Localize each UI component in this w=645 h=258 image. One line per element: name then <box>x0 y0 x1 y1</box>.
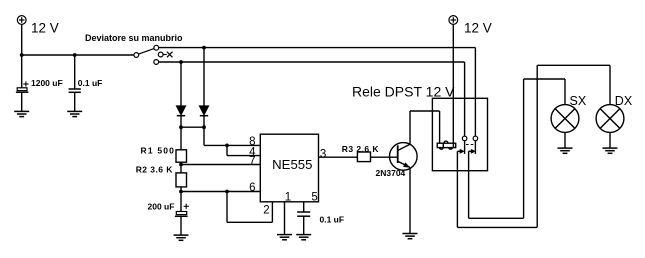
wire pin 3 to R3 <box>319 156 358 158</box>
node pin6/pin2 junction <box>225 190 229 194</box>
node net B / diode D1 junction <box>179 60 183 64</box>
wire D2 to pin 8 <box>204 127 260 145</box>
wire armature left to lamp DX <box>457 65 610 227</box>
wire cathode bus <box>181 126 204 128</box>
relay mechanical link (dashed) <box>466 144 474 146</box>
wire cap C2 top lead <box>74 55 76 89</box>
svg-text:1200 uF: 1200 uF <box>31 78 63 88</box>
ground under SX <box>558 148 573 153</box>
svg-text:2: 2 <box>263 205 269 217</box>
ground under Q1 <box>403 234 418 239</box>
wire pin 6 <box>181 191 260 193</box>
svg-text:5: 5 <box>311 191 317 203</box>
capacitor C2 0.1 uF <box>69 89 81 92</box>
svg-text:200 uF: 200 uF <box>148 202 175 212</box>
ground under pin 1 <box>277 235 292 240</box>
wire net A branch to D2 <box>203 48 205 106</box>
lamp SX <box>551 105 579 133</box>
svg-text:Deviatore su manubrio: Deviatore su manubrio <box>85 33 183 43</box>
node bus-cap01 junction <box>73 53 77 57</box>
svg-text:12 V: 12 V <box>31 21 59 36</box>
wire supply2 to coil <box>452 24 454 143</box>
wire R1 to R2 <box>180 162 182 173</box>
relay armature left <box>457 149 464 227</box>
node pin6 left junction <box>179 190 183 194</box>
capacitor C3 200 uF <box>175 204 189 217</box>
switch SW1 bottom throw contact <box>154 60 159 65</box>
svg-text:12 V: 12 V <box>464 21 492 36</box>
capacitor C1 1200 uF <box>16 81 29 92</box>
switch SW1 common pole <box>134 49 154 58</box>
node pin8/pin4 junction <box>225 144 229 148</box>
wire pin 5 to C4 <box>303 202 305 212</box>
wire net B branch to D1 <box>180 62 182 106</box>
wire pin 1 to ground <box>284 202 286 235</box>
wire cap C1 bottom lead <box>21 92 23 111</box>
svg-text:0.1 uF: 0.1 uF <box>78 78 103 88</box>
svg-text:Rele DPST 12 V: Rele DPST 12 V <box>352 83 455 99</box>
wire R2 to C3 <box>180 187 182 212</box>
node net A / diode D2 junction <box>202 46 206 50</box>
wire top bus <box>22 54 134 56</box>
svg-text:2N3704: 2N3704 <box>376 168 406 178</box>
power supply +12V left <box>17 16 26 25</box>
wire pin6 to pin2 <box>227 192 272 223</box>
wire cap C1 top lead <box>21 55 23 88</box>
capacitor C4 0.1 uF <box>297 212 310 216</box>
svg-text:R1 500: R1 500 <box>141 146 176 156</box>
relay contact right fixed terminal <box>473 136 478 154</box>
lamp DX <box>596 105 624 133</box>
wire net A: top throw to relay right contact <box>159 48 476 137</box>
wire R3 to base <box>371 156 397 158</box>
wire emitter to ground <box>409 167 411 233</box>
node pin7 junction <box>179 163 183 167</box>
wire branch to pin 4 <box>227 145 260 155</box>
power supply +12V right <box>449 16 458 25</box>
relay armature right <box>469 149 476 218</box>
relay contact left fixed terminal <box>462 136 467 154</box>
node D1 cathode junction <box>179 125 183 129</box>
resistor R2 <box>176 173 187 187</box>
ground under C1 <box>14 111 29 116</box>
svg-text:0.1 uF: 0.1 uF <box>320 215 345 225</box>
diode D1 <box>176 106 186 127</box>
svg-text:SX: SX <box>570 94 587 108</box>
svg-text:6: 6 <box>249 182 255 194</box>
svg-text:NE555: NE555 <box>272 157 312 172</box>
wire D1 to R1 <box>180 127 182 150</box>
wire lamp DX to ground <box>609 132 611 148</box>
ground under C4 <box>296 235 311 240</box>
relay coil <box>437 141 456 149</box>
ground under C2 <box>67 111 82 116</box>
resistor R3 <box>357 152 370 162</box>
resistor R1 <box>176 150 187 162</box>
wire pin 7 <box>181 164 260 166</box>
svg-text:DX: DX <box>615 94 633 108</box>
svg-text:1: 1 <box>285 191 291 203</box>
wire lamp SX to ground <box>564 132 566 148</box>
ground under DX <box>603 148 618 153</box>
switch SW1 middle throw contact (unused) <box>158 52 172 58</box>
op-amp U1 NE555 box <box>260 134 318 202</box>
switch SW1 top throw contact <box>154 45 159 50</box>
wire C4 to ground <box>303 216 305 234</box>
wire C3 to ground <box>180 216 182 235</box>
node bus-cap1200 junction <box>20 53 24 57</box>
node D2 cathode junction <box>202 125 206 129</box>
wire cap C2 bottom lead <box>74 92 76 111</box>
svg-text:7: 7 <box>249 155 255 167</box>
svg-text:3: 3 <box>320 148 326 160</box>
ground under C3 <box>174 235 189 240</box>
transistor Q1 2N3704 <box>390 143 418 171</box>
wire supply1 stem <box>21 24 23 55</box>
wire net B: bottom throw to relay left contact <box>159 62 465 136</box>
wire armature right to lamp SX <box>469 79 565 218</box>
diode D2 <box>199 106 209 127</box>
svg-text:R2 3.6 K: R2 3.6 K <box>136 164 174 174</box>
relay K1 box <box>432 98 487 170</box>
wire collector to relay coil <box>410 111 440 144</box>
